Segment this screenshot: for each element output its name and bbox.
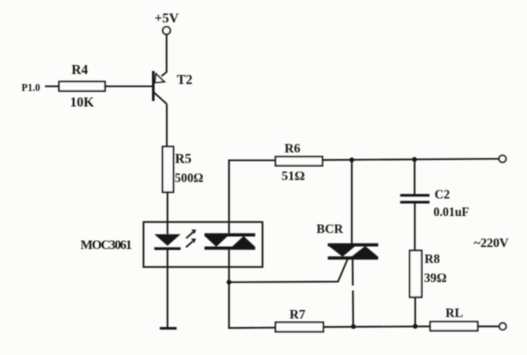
- wire R7 to RL: [323, 325, 430, 328]
- svg-text:C2: C2: [435, 188, 450, 202]
- svg-text:10K: 10K: [70, 94, 95, 109]
- svg-text:P1.0: P1.0: [22, 83, 41, 94]
- svg-text:R5: R5: [175, 151, 192, 166]
- capacitor C2: [400, 195, 429, 202]
- wire collector to R5: [166, 104, 168, 147]
- LED D1 in optocoupler: [154, 234, 180, 248]
- svg-text:39Ω: 39Ω: [424, 271, 447, 285]
- wire top rail corner to photo-triac: [229, 160, 276, 233]
- svg-text:RL: RL: [446, 306, 464, 320]
- svg-text:T2: T2: [177, 72, 193, 87]
- svg-text:R6: R6: [285, 141, 301, 156]
- terminal AC bottom: [499, 323, 506, 330]
- wire R8 to bottom rail: [414, 297, 416, 326]
- wire R6 to right terminal: [322, 159, 498, 160]
- resistor R4: [59, 82, 105, 91]
- transistor T2: [153, 71, 167, 104]
- wire RL to terminal: [478, 325, 500, 327]
- resistor R6: [276, 157, 323, 166]
- wire junction down to bottom rail: [229, 282, 276, 328]
- svg-text:~220V: ~220V: [474, 235, 509, 250]
- junction BCR bottom: [351, 324, 356, 329]
- svg-text:BCR: BCR: [317, 222, 344, 236]
- resistor RL: [430, 322, 478, 331]
- wire R5 to LED anode: [167, 192, 169, 234]
- triac BCR: [328, 245, 378, 258]
- wire photo-triac to junction: [228, 250, 230, 282]
- ground: [160, 327, 177, 330]
- svg-text:+5V: +5V: [155, 11, 179, 26]
- light arrows in optocoupler: [186, 230, 196, 248]
- junction opto output: [227, 280, 232, 285]
- resistor R5: [163, 147, 174, 193]
- svg-text:500Ω: 500Ω: [175, 171, 204, 185]
- svg-text:R4: R4: [72, 62, 89, 77]
- resistor R7: [276, 322, 324, 331]
- junction BCR top: [349, 158, 354, 163]
- svg-text:0.01uF: 0.01uF: [434, 205, 470, 219]
- wire emitter lead from +5V to T2: [162, 34, 167, 76]
- wire R4 to base: [105, 85, 153, 87]
- svg-text:51Ω: 51Ω: [282, 168, 305, 183]
- wire C2 branch: [414, 159, 416, 194]
- wire C2 to R8: [414, 204, 416, 251]
- wire P1.0 to R4: [45, 85, 59, 87]
- svg-text:R7: R7: [290, 307, 306, 322]
- resistor R8: [410, 251, 422, 298]
- wire LED cathode to ground: [167, 250, 169, 328]
- terminal +5V circle: [163, 27, 171, 35]
- optocoupler U1 box: [144, 222, 263, 267]
- junction R8 bottom: [413, 324, 418, 329]
- wire BCR gate: [229, 259, 348, 282]
- wire top rail to BCR: [351, 160, 353, 244]
- wire BCR MT2 to bottom rail: [352, 260, 354, 286]
- svg-text:MOC3061: MOC3061: [81, 237, 132, 252]
- svg-text:R8: R8: [425, 252, 440, 266]
- photo-triac in optocoupler: [205, 235, 256, 248]
- junction C2 top: [412, 157, 417, 162]
- terminal AC top: [499, 155, 506, 162]
